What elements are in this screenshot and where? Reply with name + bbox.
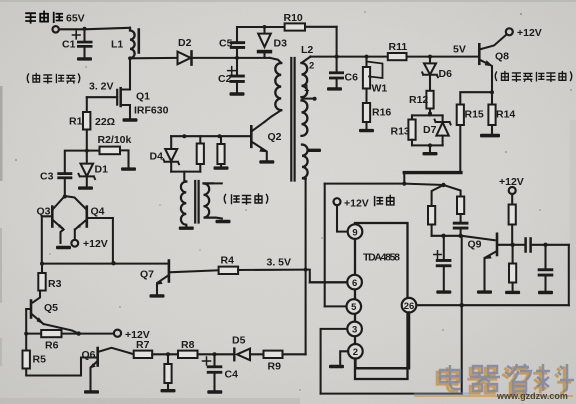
wire R15 bottom to feedback rail [459, 125, 461, 173]
wire bottom rail Q6 to R7 [133, 353, 135, 355]
node L1 bottom [128, 56, 132, 60]
capacitor C2 electrolytic [236, 58, 238, 75]
pin 2 [348, 344, 363, 359]
svg-text:Q6: Q6 [82, 349, 96, 361]
bar under Q3 leg [56, 246, 71, 249]
svg-text:C3: C3 [40, 171, 54, 183]
svg-text:R9: R9 [268, 361, 282, 373]
wire R9 to 3.5V riser [283, 353, 306, 355]
svg-text:Q8: Q8 [495, 51, 509, 63]
zener D1 [86, 151, 88, 164]
resistor R5 [25, 334, 27, 351]
resistor R8 [178, 351, 198, 358]
node R12 bottom [429, 109, 431, 116]
node unnamed resistor [166, 352, 170, 356]
transformer L2 secondary winding lower [302, 145, 308, 180]
tap 1 lead [303, 98, 315, 100]
wire D2 anode from L1 node [130, 57, 178, 59]
ground Q2 base resistor [214, 166, 229, 169]
capacitor C3 [57, 172, 72, 175]
svg-text:26: 26 [404, 301, 415, 312]
resistor R10 [285, 23, 305, 30]
label 至电源 65V [26, 12, 62, 23]
feedback rail thick [404, 171, 461, 174]
Q9 bias right resistor [444, 185, 461, 197]
resistor R2 [100, 147, 121, 155]
wire R1 to node [86, 130, 88, 151]
svg-text:D5: D5 [232, 335, 246, 347]
node R10 drop [335, 55, 339, 59]
capacitor C4 [213, 354, 215, 390]
node D6 [428, 55, 432, 59]
IC TDA4858 box [355, 223, 408, 379]
bottom rail D4 network [171, 171, 200, 173]
label 自举升压 [27, 74, 80, 84]
svg-text:R11: R11 [389, 41, 408, 53]
zener D3 [263, 27, 265, 34]
ground C2 [230, 92, 245, 95]
svg-text:L2: L2 [301, 44, 313, 56]
svg-text:C4: C4 [225, 369, 239, 381]
right bus down [568, 245, 570, 305]
node R6 left [24, 332, 28, 336]
node C3 bottom / diff pair top [54, 196, 86, 209]
wire R4 to 3.5V node [238, 269, 306, 271]
svg-text:R13: R13 [391, 126, 410, 138]
wire rail step down [403, 173, 405, 184]
ground under C1 [77, 57, 92, 60]
ground R14 [491, 125, 493, 134]
svg-text:+12V: +12V [83, 238, 108, 250]
wire R7 to R8 [152, 353, 178, 355]
node W1 [365, 55, 369, 59]
capacitor C1 [83, 29, 85, 57]
drive transformer secondary [204, 183, 222, 218]
resistor R12 [426, 91, 433, 109]
wire Q2 base rail [171, 135, 251, 137]
label 供电 [375, 196, 394, 206]
ground drive secondary [216, 220, 231, 223]
svg-text:D1: D1 [95, 164, 109, 176]
capacitor output to ground [544, 245, 546, 268]
svg-text:R6: R6 [45, 340, 59, 352]
terminal +12V right [509, 187, 516, 194]
svg-text:R10: R10 [284, 12, 303, 24]
svg-text:9: 9 [352, 227, 357, 238]
capacitor C5 [236, 27, 238, 41]
svg-text:D7: D7 [423, 124, 437, 136]
wire Q5 base down [25, 309, 27, 334]
inductor L1 [130, 28, 135, 59]
parallel network R13 D7 top rail [412, 114, 443, 116]
node R3 [40, 262, 44, 266]
wire R8 to D5 [198, 353, 234, 355]
svg-text:3. 5V: 3. 5V [267, 257, 292, 269]
transformer L2 primary [270, 58, 281, 63]
svg-text:2: 2 [353, 347, 358, 358]
node D3 top [263, 25, 267, 29]
svg-text:C5: C5 [219, 38, 233, 50]
ground Q6 emitter [84, 390, 99, 393]
svg-text:Q9: Q9 [468, 239, 482, 251]
terminal +12V supply [334, 198, 341, 205]
pin 9 [348, 224, 363, 239]
Q9 bias left resistor [432, 185, 444, 206]
wire input to L1 [59, 28, 130, 30]
svg-text:1: 1 [304, 83, 310, 94]
ground R16 [359, 129, 374, 132]
svg-text:R4: R4 [221, 255, 235, 267]
svg-text:R16: R16 [372, 107, 391, 119]
ground Q2 emitter [259, 160, 274, 163]
svg-text:C2: C2 [218, 73, 232, 85]
parallel network bottom rail [412, 144, 443, 146]
wire Q4 base riser [112, 218, 114, 263]
svg-text:Q2: Q2 [268, 131, 282, 143]
wire R6 to +12V [79, 333, 114, 335]
resistor R15 [457, 105, 464, 126]
ground Q1 source [123, 118, 138, 121]
transistor Q5 [30, 301, 33, 318]
svg-text:TDA4858: TDA4858 [363, 252, 400, 264]
resistor R13 [411, 115, 413, 119]
wire Q3 emitter leg to bar [61, 230, 64, 244]
wire pin6 left [310, 281, 348, 283]
svg-text:22Ω: 22Ω [95, 116, 115, 128]
svg-text:IRF630: IRF630 [134, 105, 169, 117]
svg-text:Q7: Q7 [140, 269, 154, 281]
capacitor C6 [336, 57, 338, 87]
svg-text:3. 2V: 3. 2V [89, 81, 114, 93]
ground Q7 [150, 294, 165, 297]
pin 3 [347, 322, 362, 337]
ground Q9 emitter [477, 290, 492, 293]
zener D6 [429, 57, 431, 64]
node Q7 riser [111, 261, 115, 265]
wire pin5 [325, 305, 347, 307]
svg-text:65V: 65V [66, 13, 85, 25]
wire Q5 emitter to R6 node [44, 324, 79, 334]
ground R13 D7 [429, 145, 431, 151]
svg-text:L1: L1 [111, 39, 123, 51]
ground D1 [78, 186, 93, 189]
node 3.5V [304, 268, 308, 272]
svg-text:6: 6 [352, 278, 357, 289]
ground C6 [327, 87, 342, 90]
label 行激励 [224, 194, 268, 204]
wire L2 winding3 to 3.5V node to R9 [305, 177, 307, 354]
pin 6 [347, 275, 362, 290]
stub tap winding lower [307, 149, 321, 152]
mosfet Q1 IRF630 [119, 88, 122, 106]
svg-text:C6: C6 [345, 72, 359, 84]
wire Q7 emitter to R4 [169, 270, 219, 272]
svg-text:www.gzdzw.com: www.gzdzw.com [496, 391, 568, 401]
wire 3.5V node to pin6 [306, 270, 348, 283]
svg-text:Q5: Q5 [44, 302, 58, 314]
wire D5 to R9 [250, 353, 264, 355]
wire rail to Q7 [42, 263, 169, 265]
svg-text:D2: D2 [178, 37, 192, 49]
svg-text:+12V: +12V [499, 176, 524, 188]
svg-text:R1: R1 [69, 116, 83, 128]
wire gate to R1 [86, 97, 88, 112]
pin 26 [402, 298, 417, 313]
transistor Q6 [96, 348, 99, 366]
svg-text:D6: D6 [439, 68, 453, 80]
drive transformer primary [184, 172, 186, 182]
transistor Q7 [168, 261, 171, 282]
terminal 至电源65V input [53, 26, 59, 32]
resistor unlabeled below R7/R8 node [167, 354, 169, 364]
node C4 [213, 352, 217, 356]
drive transformer core [195, 181, 198, 223]
transistor Q9 [496, 234, 499, 255]
terminal +12V mid left [114, 330, 121, 337]
top rail C5 to R10 [237, 26, 337, 28]
wire pin2 to pin26 link [355, 313, 409, 369]
terminal +12V diff pair [74, 230, 76, 240]
pin 5 [347, 299, 362, 314]
right bus vertical [461, 236, 463, 394]
ground lower resistor [505, 291, 520, 294]
svg-text:Q3: Q3 [37, 206, 51, 218]
wire R10 down to 5V rail [336, 27, 338, 57]
resistor Q2 base to ground [220, 136, 222, 144]
zener D7 [442, 115, 444, 122]
ground R2 [121, 167, 136, 170]
svg-text:R5: R5 [33, 354, 47, 366]
svg-text:R3: R3 [48, 278, 62, 290]
coupling capacitor [526, 239, 531, 252]
wire pin5 riser [324, 184, 326, 307]
wire R2 to ground [120, 150, 129, 167]
wire pin3 [321, 329, 348, 394]
wire pin26 rail [416, 304, 569, 306]
wire long feedback to pin5 riser [325, 184, 444, 185]
svg-text:D3: D3 [274, 38, 288, 50]
svg-text:Q1: Q1 [136, 91, 150, 103]
ground drive primary [179, 227, 194, 230]
svg-text:Q4: Q4 [91, 206, 105, 218]
transformer L2 core [291, 58, 294, 181]
zener D4 [170, 136, 172, 149]
resistor Q9 collector load [511, 194, 513, 205]
ground C4 [207, 390, 222, 393]
transistor Q3 [51, 207, 54, 227]
node right leg [218, 134, 222, 138]
capacitor Q9 bias [453, 222, 469, 225]
ground unlabeled resistor [161, 389, 176, 392]
wire 5V rail [311, 56, 479, 58]
wire Q3 base riser [41, 216, 43, 263]
node Q9 collector [510, 243, 514, 247]
node C6 [336, 56, 337, 57]
wire pin2 ground [340, 351, 348, 364]
svg-text:C1: C1 [62, 39, 76, 51]
trimmer W1 [365, 57, 367, 67]
resistor parallel with D4 [199, 136, 201, 143]
resistor R16 [365, 89, 367, 104]
diode D2 [178, 52, 191, 65]
resistor R11 [388, 53, 407, 60]
node C5/C2 [235, 56, 239, 60]
wire D2 cathode to C5/C2 node [192, 57, 238, 59]
wire cap to right bus [531, 244, 569, 246]
resistor R4 [219, 267, 239, 274]
svg-text:R7: R7 [136, 339, 150, 351]
resistor Q9 collector lower [512, 245, 514, 264]
terminal +12V top right [506, 28, 513, 35]
transformer L2 secondary winding upper [302, 57, 311, 63]
svg-text:R14: R14 [496, 109, 515, 121]
node D4 leg [182, 134, 186, 138]
wire L1 to Q1 drain [122, 58, 131, 89]
node R1/R2/D1 [85, 149, 89, 153]
wire +12V to pin9 [337, 205, 348, 231]
svg-text:R2/10k: R2/10k [98, 134, 132, 146]
resistor R9 [264, 351, 283, 358]
ground output cap [538, 291, 553, 294]
resistor R6 [26, 333, 78, 335]
svg-text:+12V: +12V [517, 27, 542, 39]
resistor R1 [83, 112, 90, 130]
Q9 base rail [432, 236, 495, 240]
node Q8 emitter divider [490, 90, 494, 94]
watermark 电器资料 [414, 364, 574, 401]
label 误差取样放大 [495, 72, 572, 82]
node Q9 bias top [441, 183, 445, 187]
svg-text:R15: R15 [465, 109, 484, 121]
svg-text:5: 5 [351, 302, 357, 313]
wire node to D3 bottom / L2 top [237, 57, 270, 59]
wire R3 to Q5 [33, 291, 40, 303]
transformer L2 secondary winding middle [302, 101, 308, 136]
resistor R7 [134, 351, 153, 358]
svg-text:W1: W1 [372, 83, 388, 95]
ground bias cap [436, 290, 451, 293]
node output cap [543, 243, 547, 247]
electrolytic cap below bias [443, 236, 445, 259]
svg-text:R8: R8 [181, 339, 195, 351]
transistor Q2 [250, 126, 253, 147]
svg-text:R12: R12 [409, 94, 428, 106]
svg-text:+12V: +12V [344, 198, 369, 210]
wire R5 to Q6 base [26, 358, 98, 376]
svg-text:2: 2 [309, 61, 314, 72]
node R6 right [77, 331, 81, 335]
resistor R14 [491, 92, 493, 104]
resistor R3 [41, 264, 43, 273]
svg-text:D4: D4 [150, 151, 164, 163]
bottom rail pin3 [321, 393, 462, 395]
diode D5 [233, 349, 235, 361]
transistor Q8 [478, 44, 481, 64]
node bus right [460, 303, 464, 307]
node input/C1 [83, 27, 87, 31]
wire node to R2 [87, 150, 100, 152]
wire node to C3 [65, 151, 87, 172]
wire collector to coupling cap [513, 244, 525, 246]
wire to R15 [460, 92, 492, 104]
transistor Q4 [86, 207, 89, 227]
svg-text:3: 3 [352, 325, 357, 336]
svg-text:5V: 5V [453, 44, 466, 56]
